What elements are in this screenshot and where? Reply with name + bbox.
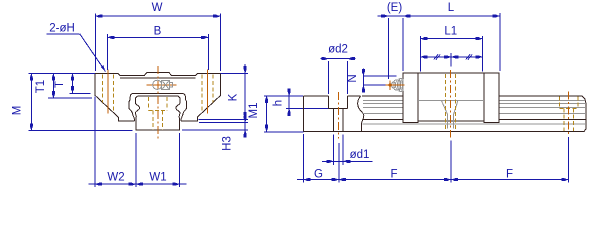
dimension od1 (bolt hole diameter)	[322, 135, 373, 166]
equal-split dimension below L1 with hash marks	[420, 53, 482, 67]
grease nipple centerline cross (left view)	[147, 84, 177, 86]
svg-text:G: G	[314, 169, 323, 181]
rail top edge side view	[362, 96, 586, 132]
svg-text:h: h	[273, 100, 285, 106]
linear guide block cross-section outline (left view)	[95, 72, 220, 121]
dimension F (hole pitch) second	[451, 137, 569, 183]
dimension K	[199, 64, 249, 119]
svg-text:W2: W2	[107, 172, 124, 184]
svg-text:F: F	[390, 169, 397, 181]
svg-text:W: W	[152, 2, 163, 14]
dimension N (nipple height)	[347, 69, 397, 93]
svg-text:H3: H3	[222, 136, 234, 151]
LM block side view outline	[403, 73, 499, 122]
rail cross-section profile	[135, 96, 180, 130]
rail side view left sectioned end	[304, 96, 585, 131]
svg-text:ød2: ød2	[328, 44, 348, 56]
right flange mounting hole (hidden, oH)	[202, 70, 213, 114]
rail bolt counterbore hole in section (od2/od1)	[329, 96, 348, 131]
svg-text:L: L	[448, 2, 455, 14]
hidden rail top under block	[418, 99, 484, 101]
dimension L (block length)	[403, 2, 500, 71]
rail hole at right end (hidden)	[560, 92, 578, 136]
svg-text:N: N	[347, 74, 359, 82]
svg-text:ød1: ød1	[350, 149, 370, 161]
dimension h	[273, 89, 329, 116]
dimension T1	[35, 73, 92, 98]
svg-text:F: F	[506, 169, 513, 181]
dimension L1	[420, 26, 482, 72]
grease nipple front view (circle and fitting)	[153, 80, 173, 89]
label 2-oH with leader to flange hole	[47, 23, 106, 72]
dimension M1 (rail height)	[248, 96, 304, 132]
dimension W (block width) with extension lines	[95, 2, 220, 71]
dimension B (flange hole spacing)	[108, 26, 209, 71]
dimension W1 (rail width)	[136, 133, 187, 187]
svg-text:M1: M1	[248, 103, 260, 119]
dimension M (overall height)	[12, 73, 133, 130]
svg-text:K: K	[228, 93, 240, 101]
rail side groove lines	[362, 100, 586, 123]
dimension W2	[89, 97, 136, 188]
svg-text:T1: T1	[35, 80, 47, 93]
dimension F (hole pitch) first	[339, 141, 451, 183]
svg-text:W1: W1	[149, 172, 166, 184]
svg-text:L1: L1	[444, 26, 457, 38]
block inner cavity wall around rail	[129, 93, 187, 121]
vertical centerline of rail and bolt hole (left view)	[157, 66, 159, 140]
dimension od2 (counterbore diameter)	[321, 44, 356, 95]
svg-text:B: B	[154, 26, 162, 38]
dimension (E) nipple protrusion	[378, 2, 404, 79]
svg-text:2-øH: 2-øH	[49, 23, 75, 35]
dimension G (rail end to first hole)	[297, 134, 339, 183]
centerline of first rail hole	[337, 92, 339, 139]
svg-text:(E): (E)	[387, 2, 403, 14]
left flange mounting hole (hidden, oH)	[103, 70, 114, 114]
svg-text:T: T	[54, 81, 66, 88]
hidden counterbore funnel under block center	[441, 100, 458, 128]
rail bolt hole counterbore (hidden) left view	[148, 97, 167, 130]
block center hole hidden lines	[446, 70, 456, 138]
dimension H3 (clearance)	[182, 115, 248, 151]
dimension T	[54, 73, 90, 93]
svg-text:M: M	[12, 106, 24, 116]
break line on rail	[358, 96, 364, 131]
grease nipple side view with hatching	[380, 79, 404, 92]
